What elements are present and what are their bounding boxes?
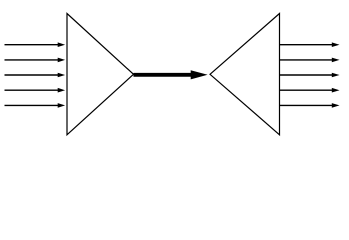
input arrow 5 (5, 103, 66, 108)
thick multiplexed-link arrow (134, 70, 208, 79)
input arrow 2 (5, 58, 66, 63)
input arrow 4 (5, 88, 66, 93)
input arrow 1 (5, 42, 66, 47)
output arrow 1 (280, 42, 340, 47)
right fan-out triangle (210, 14, 280, 135)
input arrow 3 (5, 73, 66, 78)
output arrow 3 (280, 73, 340, 78)
output arrow 5 (280, 103, 340, 108)
output arrow 2 (280, 58, 340, 63)
left fan-in triangle (67, 14, 134, 135)
output arrow 4 (280, 88, 340, 93)
